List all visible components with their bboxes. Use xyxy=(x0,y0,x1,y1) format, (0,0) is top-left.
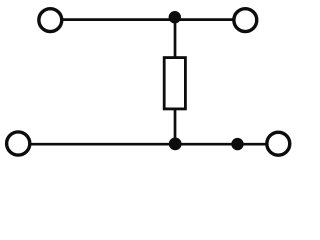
terminal bottom-left xyxy=(7,132,30,155)
wire bottom rail xyxy=(18,143,278,146)
terminal top-left xyxy=(39,9,62,32)
node junction bottom xyxy=(169,138,182,151)
terminal bottom-right xyxy=(267,132,290,155)
resistor R1 xyxy=(164,58,185,109)
terminal top-right xyxy=(234,9,257,32)
node junction top xyxy=(169,11,181,23)
wire vertical branch xyxy=(174,17,177,144)
node junction bottom-right xyxy=(231,138,243,150)
wire top rail xyxy=(50,18,245,21)
